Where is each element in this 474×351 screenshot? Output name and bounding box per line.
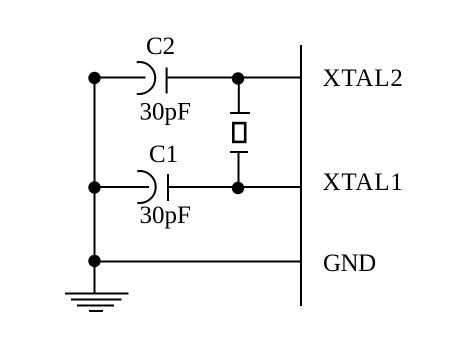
svg-text:XTAL2: XTAL2	[323, 65, 404, 92]
svg-text:C2: C2	[146, 33, 175, 60]
svg-text:30pF: 30pF	[140, 202, 191, 229]
svg-text:30pF: 30pF	[140, 99, 191, 126]
svg-text:GND: GND	[323, 250, 376, 277]
svg-text:C1: C1	[149, 141, 178, 168]
svg-text:XTAL1: XTAL1	[323, 169, 404, 196]
